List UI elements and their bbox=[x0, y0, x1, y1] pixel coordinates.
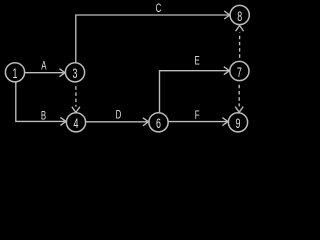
wire E: node6 up then right to node7 bbox=[160, 71, 229, 113]
dashed dummy wire node3 to node4 bbox=[75, 86, 77, 106]
dashed dummy wire node7 to node8 bbox=[239, 33, 241, 58]
svg-text:7: 7 bbox=[237, 66, 242, 80]
svg-text:9: 9 bbox=[236, 118, 241, 132]
node 9 circle bbox=[228, 113, 247, 132]
arrowhead into node 7 bbox=[224, 67, 230, 75]
svg-text:C: C bbox=[156, 3, 162, 16]
svg-text:B: B bbox=[41, 110, 47, 123]
wire C: node3 up then right to node8 bbox=[76, 15, 229, 62]
svg-text:3: 3 bbox=[73, 68, 78, 82]
node 3 circle bbox=[65, 63, 84, 82]
node 7 circle bbox=[230, 61, 249, 80]
svg-text:6: 6 bbox=[156, 118, 161, 132]
svg-text:D: D bbox=[116, 109, 122, 122]
arrowhead into node 8 bbox=[224, 11, 230, 19]
arrowhead into node 9 bbox=[222, 118, 228, 126]
dashed dummy wire node7 to node9 bbox=[238, 85, 240, 107]
wire A: node1 to node3 bbox=[25, 72, 64, 74]
arrowhead into node 4 top bbox=[72, 107, 80, 113]
node 8 circle bbox=[230, 5, 249, 24]
svg-text:4: 4 bbox=[74, 118, 79, 132]
node 4 circle bbox=[66, 113, 85, 132]
wire F: node6 to node9 bbox=[169, 121, 227, 123]
svg-text:1: 1 bbox=[13, 68, 18, 82]
svg-text:8: 8 bbox=[237, 10, 242, 24]
svg-text:A: A bbox=[41, 60, 47, 73]
wire D: node4 to node6 bbox=[86, 121, 147, 123]
node 6 circle bbox=[149, 113, 168, 132]
node 1 circle bbox=[5, 63, 24, 82]
arrowhead into node 8 bottom bbox=[236, 26, 244, 32]
svg-text:F: F bbox=[195, 110, 200, 123]
arrowhead into node 6 bbox=[143, 118, 149, 126]
svg-text:E: E bbox=[194, 55, 200, 68]
arrowhead into node 3 bbox=[59, 69, 65, 77]
wire B: node1 down then right to node4 bbox=[16, 82, 65, 121]
arrowhead into node 4 bbox=[60, 117, 66, 125]
arrowhead into node 9 top bbox=[235, 107, 243, 113]
